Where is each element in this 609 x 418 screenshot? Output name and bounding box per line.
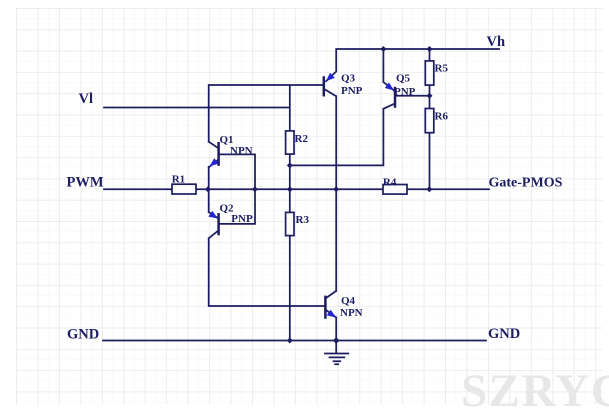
svg-text:Q5: Q5 xyxy=(396,73,411,85)
svg-text:PWM: PWM xyxy=(67,175,104,191)
svg-text:Vl: Vl xyxy=(79,91,94,107)
svg-text:R4: R4 xyxy=(383,176,397,188)
svg-text:PNP: PNP xyxy=(394,86,416,98)
svg-text:Gate-PMOS: Gate-PMOS xyxy=(489,176,563,191)
svg-text:R5: R5 xyxy=(435,62,449,74)
svg-text:SZRYC: SZRYC xyxy=(461,365,609,413)
svg-text:NPN: NPN xyxy=(230,145,253,157)
svg-text:R6: R6 xyxy=(435,110,449,122)
svg-text:Q4: Q4 xyxy=(341,295,356,307)
svg-text:NPN: NPN xyxy=(340,307,363,319)
svg-text:Vh: Vh xyxy=(487,34,506,50)
svg-text:R2: R2 xyxy=(295,133,309,145)
svg-text:GND: GND xyxy=(488,326,520,342)
svg-text:PNP: PNP xyxy=(341,85,363,97)
svg-text:Q3: Q3 xyxy=(341,72,356,84)
svg-text:R1: R1 xyxy=(172,174,185,186)
svg-text:PNP: PNP xyxy=(231,213,253,225)
svg-text:GND: GND xyxy=(67,327,99,343)
svg-text:R3: R3 xyxy=(296,214,310,226)
